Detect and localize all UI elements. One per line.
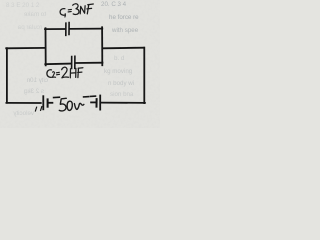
label C1 equals	[68, 9, 71, 12]
battery cell right plate short	[96, 99, 98, 107]
svg-text:city 10n: city 10n	[26, 77, 48, 84]
label value N	[80, 6, 85, 14]
label value H	[70, 68, 76, 77]
wire top rail left	[45, 28, 65, 30]
svg-text:n body wi: n body wi	[108, 80, 134, 87]
ink layer	[6, 23, 145, 112]
wire bottom right	[101, 102, 145, 104]
battery dashed link	[54, 96, 96, 97]
label C2 designator	[47, 70, 52, 78]
battery cell right plate long	[99, 96, 101, 110]
label value 2	[62, 67, 69, 78]
wire bottom rail right	[75, 62, 102, 64]
wire left vertical	[6, 48, 8, 102]
svg-text:s 2 3kg: s 2 3kg	[23, 88, 44, 95]
battery cell left plate short	[47, 99, 49, 106]
stray pen ticks	[35, 107, 41, 111]
label value 3	[73, 4, 79, 15]
wire top rail right	[70, 28, 103, 30]
svg-text:b. d: b. d	[114, 55, 125, 62]
label C2 subscript	[52, 72, 55, 78]
label battery 5	[59, 98, 84, 111]
label value F2	[78, 68, 83, 78]
wire bottom rail left	[45, 63, 71, 66]
label C2 equals	[56, 72, 59, 75]
paper background	[0, 0, 160, 128]
svg-text:with spee: with spee	[111, 27, 139, 34]
svg-text:he force re: he force re	[109, 14, 139, 21]
svg-text:to make: to make	[23, 11, 46, 18]
wire bottom left	[6, 102, 40, 104]
wire battery left stub	[48, 102, 52, 104]
wire left mid horizontal	[6, 47, 45, 49]
wire right vertical	[143, 48, 145, 103]
svg-text:kg moving: kg moving	[104, 68, 133, 75]
handwritten labels	[47, 4, 93, 111]
svg-text:velocity: velocity	[12, 110, 34, 117]
wire battery right stub	[91, 101, 96, 103]
label C1 designator	[60, 9, 65, 16]
wire right mid horizontal	[103, 47, 145, 50]
label battery 0	[67, 101, 72, 110]
node junction box right vertical	[101, 27, 103, 65]
battery cell left plate long	[42, 96, 44, 109]
label C1 subscript	[64, 14, 66, 17]
label battery v	[74, 103, 84, 109]
faint print-through text layer	[6, 1, 139, 117]
label value F	[87, 4, 93, 14]
svg-text:20. C 3 4: 20. C 3 4	[101, 1, 127, 8]
capacitor C1	[66, 23, 69, 36]
node junction box left vertical	[45, 28, 47, 65]
capacitor C2	[72, 56, 75, 68]
svg-text:rcular pa: rcular pa	[17, 24, 42, 31]
svg-text:8 3 E 20 1 2: 8 3 E 20 1 2	[6, 2, 40, 9]
svg-text:sion bna: sion bna	[110, 91, 134, 98]
